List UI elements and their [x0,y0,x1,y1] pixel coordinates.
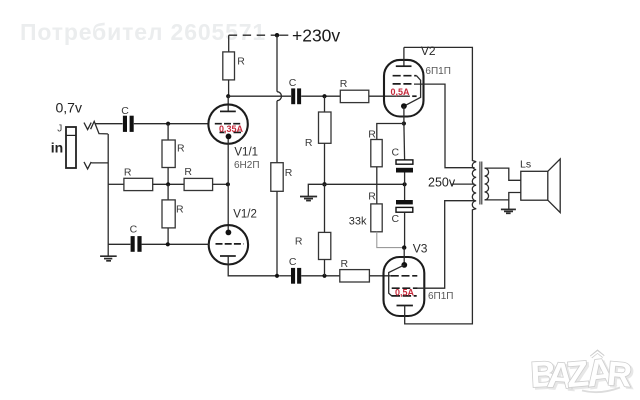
wire +230 rail upper [276,35,278,91]
capacitor C4 [291,268,301,284]
wire R6 to bottom row [276,191,278,275]
svg-text:C: C [121,105,129,117]
tube V2 envelope [384,60,424,117]
wire cathode junction to R11 [377,124,404,140]
wire ground node to R9 [324,184,326,232]
screen grid V2 (dashed) [393,83,412,85]
node V1/2 grid [166,242,170,246]
wire cathode rail V1/1-V1/2 [227,139,229,230]
capacitor C3 [131,236,142,252]
svg-text:C: C [392,147,400,159]
node V1/1 anode [226,94,230,98]
wire R3 top [167,184,169,200]
beam-cathode tie V2 [406,76,421,106]
svg-text:0,35А: 0,35А [219,124,244,134]
svg-text:R: R [341,258,349,270]
resistor R9 [319,232,331,259]
wire feed down to R1 [228,35,230,52]
svg-text:R: R [295,235,303,247]
svg-text:+230v: +230v [292,25,340,45]
svg-text:C: C [289,256,297,268]
wire R2 to mid node [167,168,169,185]
resistor R12 (33k) [371,204,382,232]
tube V1/1 envelope [208,104,247,143]
wire tip to C1 [96,123,123,125]
svg-text:R: R [176,203,184,215]
capacitor C2 [291,88,301,104]
resistor R8 [319,112,332,143]
svg-text:J: J [57,123,62,134]
wire ground rail (left) [107,134,109,256]
resistor R6 (V1/2 anode load) [271,163,283,192]
svg-text:R: R [340,78,348,90]
svg-text:R: R [305,137,313,149]
wire R4 to mid node [153,183,184,185]
wire V1/2 anode node to C4 [279,275,291,277]
svg-text:V1/1: V1/1 [234,147,258,159]
wire anode lead V1/1 [227,96,229,111]
jack sleeve contact [84,162,91,169]
watermark bottom-right: BAZAR logo [527,344,640,400]
tube V1/2 envelope [209,225,248,264]
svg-text:R: R [124,167,132,179]
resistor R5 [184,178,213,190]
control grid dash V3 [391,275,418,277]
svg-text:C: C [130,224,138,236]
anode bar V3 [397,305,413,307]
resistor R10 (V3 grid stopper) [340,270,370,282]
svg-text:V2: V2 [421,44,436,58]
svg-text:R: R [368,129,376,141]
node cathode rail [226,182,230,186]
wire +230v dashed feed [229,34,276,36]
transformer secondary [485,168,489,200]
control grid dash V2 [412,95,416,97]
svg-text:R: R [368,191,376,203]
resistor R7 (V2 grid stopper) [340,90,369,102]
svg-text:C: C [392,213,400,225]
svg-text:R: R [184,166,192,178]
wire bottom row left [108,243,130,245]
wire ground tap mid [308,184,324,196]
svg-text:C: C [289,77,297,89]
beam-cathode tie V3 [389,265,405,296]
node V3 cathode junction [402,245,406,249]
wire V3 anode to transformer [405,209,477,324]
wire R10 to V3 grid [369,275,390,277]
wire R9 to bottom node [324,260,326,276]
wire ground row to cap mid [325,183,405,185]
wire R1 to anode node [228,80,230,96]
resistor R1 (V1/1 anode load) [223,52,235,80]
svg-text:R: R [177,143,185,155]
node V1/2 anode / rail [275,274,279,278]
wire V2 screen to tap [414,84,475,168]
cathode dot V1/2 [226,230,232,236]
wire node to R8 [324,96,326,112]
wire mid row left [108,183,124,185]
node mid [166,182,170,186]
capacitor C1 [123,116,134,132]
wire sleeve to ground rail [91,162,108,164]
screen grid V3 (dashed) [392,287,418,289]
node cap chain mid [403,182,407,186]
wire +230 rail to R6 [276,101,278,163]
wire R8 to ground node [324,143,326,184]
node top C/R junction [322,94,326,98]
svg-text:V1/2: V1/2 [233,209,257,221]
wire 33k to V3 cathode node (gray) [377,232,402,248]
node grid V1/1 [166,122,170,126]
cathode dot V3 [401,262,407,268]
speaker horn [548,159,560,213]
wire secondary top lead [485,168,521,180]
svg-text:6П1П: 6П1П [428,291,454,302]
node V2 cathode junction [402,121,406,125]
svg-text:V3: V3 [413,241,428,255]
svg-text:in: in [51,139,63,155]
svg-text:R: R [237,55,245,67]
wire anode node to C2 (with jump) [228,95,291,97]
jack J body [66,127,76,168]
wire V2 anode to transformer [404,47,476,161]
wire C3 to V1/2 grid [142,243,209,245]
wire node to label [279,34,288,36]
cathode dot V2 [401,103,407,109]
wire C6 to V3 cathode node [404,212,406,247]
svg-text:R: R [285,167,293,179]
node ground rail [322,182,326,186]
wire jump arc over anode wire [277,92,282,101]
cathode dot V1/1 [226,134,232,140]
cathode bar bits V1/1 [220,131,242,133]
wire mid node to C6 [404,184,406,200]
beam plates V3 (dashed) [392,295,417,297]
ground (mid) [300,197,317,201]
node +230v [275,33,279,37]
wire R11 to 33k [376,167,378,204]
jack switch contact [91,121,108,133]
wire V3 screen to tap [418,201,475,289]
tube V3 envelope [384,257,425,316]
watermark top: Потребител 2605571 [20,19,266,46]
wire C5 to mid node [404,173,406,185]
svg-text:6Н2П: 6Н2П [234,160,260,171]
wire V2 cathode lead [403,106,405,123]
speaker box [521,171,548,200]
beam plates V2 (dashed) [393,75,417,77]
wire R7 to V2 grid [369,95,410,97]
resistor R4 [124,178,153,190]
wire secondary bottom lead [485,193,521,200]
wire R5 to cathode rail [213,183,228,185]
svg-text:250v: 250v [428,175,456,189]
wire C2 to node [301,95,340,97]
grid V1/1 (dashed) [215,123,241,125]
anode bar V1/1 [220,110,236,112]
wire cathode junction to C5 [403,124,406,160]
svg-text:Ls: Ls [520,159,531,171]
wire V3 cathode lead [403,248,405,265]
wire node to R2 [167,124,169,140]
transformer primary [472,162,476,209]
resistor R3 (grid leak lower) [162,200,175,228]
capacitor C6 (electrolytic -top) [396,200,413,212]
wire C4 to node [301,275,340,277]
svg-text:33k: 33k [349,215,367,227]
anode bar V2 [396,65,412,67]
wire R3 to bottom row [167,228,169,244]
svg-text:6П1П: 6П1П [425,66,451,77]
transformer core [480,162,482,205]
svg-text:0,5А: 0,5А [391,87,411,97]
grid V1/2 (dashed) [216,243,244,245]
jack tip contact [84,123,91,130]
wire 250v lead [452,183,475,185]
ground (secondary) [501,209,516,213]
svg-text:0,5А: 0,5А [395,288,415,298]
resistor R2 (grid leak upper) [162,140,175,168]
wire V2 anode lead [403,47,405,66]
node bottom C/R junction [322,274,326,278]
wire V1/2 anode lead [228,256,277,276]
anode bar V1/2 [220,255,236,257]
resistor R11 (V2 cathode) [371,140,382,167]
ground (input) [100,256,117,261]
wire C1 to V1/1 grid [134,123,209,125]
capacitor C5 (electrolytic +top) [396,160,413,173]
svg-text:0,7v: 0,7v [56,100,82,116]
wire secondary ground stem [508,200,510,210]
